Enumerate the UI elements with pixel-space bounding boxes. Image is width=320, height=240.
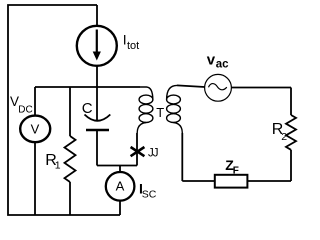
- svg-text:C: C: [82, 100, 93, 117]
- svg-text:SC: SC: [142, 189, 157, 201]
- svg-text:DC: DC: [18, 105, 32, 116]
- svg-text:1: 1: [55, 160, 61, 172]
- svg-text:ac: ac: [216, 58, 229, 70]
- svg-text:tot: tot: [127, 40, 139, 52]
- svg-text:2: 2: [281, 131, 287, 143]
- svg-text:v: v: [207, 51, 216, 68]
- svg-text:V: V: [31, 122, 40, 137]
- svg-text:A: A: [116, 179, 125, 194]
- svg-text:JJ: JJ: [148, 148, 158, 160]
- svg-text:T: T: [156, 105, 164, 120]
- svg-text:F: F: [233, 165, 239, 176]
